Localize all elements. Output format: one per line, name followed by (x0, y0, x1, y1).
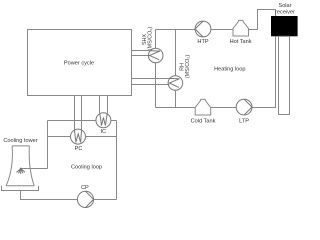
wire CO2 power cycle to RH upper (132, 78, 169, 80)
pump LTP (236, 99, 252, 115)
wire CO2 power cycle to SHX upper (132, 50, 149, 52)
svg-text:IC: IC (101, 129, 107, 135)
wire RH bottom riser (175, 90, 177, 107)
wire Hot Tank to receiver riser (249, 10, 276, 30)
wire SHX bottom riser (155, 63, 157, 108)
wire IC right to loop edge (111, 120, 117, 122)
basin (2, 186, 39, 191)
wire basin outlet (21, 190, 78, 199)
svg-text:receiver: receiver (275, 10, 295, 16)
wire PC line right (85, 136, 116, 138)
svg-text:CP: CP (81, 185, 89, 191)
svg-text:Hot Tank: Hot Tank (230, 39, 252, 45)
svg-text:Power cycle: Power cycle (64, 61, 94, 67)
wire cooling loop left edge (47, 121, 49, 169)
label SHX (MS/CO2) (142, 27, 154, 51)
svg-text:Heating loop: Heating loop (214, 67, 245, 73)
wire CO2 power cycle to RH lower (132, 84, 170, 86)
tank Hot Tank (233, 20, 249, 36)
svg-text:Cooling tower: Cooling tower (3, 138, 37, 144)
wire cold header to Cold Tank (156, 107, 196, 109)
wire CO2 riser to PC left (74, 96, 76, 130)
label Solar receiver (275, 3, 295, 16)
wire SHX top riser to hot header (155, 30, 157, 49)
wire hot header SHX to HTP (156, 29, 196, 31)
power cycle box (28, 30, 132, 96)
heat exchanger PC precooler (71, 129, 86, 144)
label RH (MS/CO2) (180, 55, 191, 79)
svg-text:HTP: HTP (197, 39, 208, 45)
spray nozzle (16, 168, 25, 174)
wire CO2 riser to PC right (81, 96, 83, 130)
svg-text:(MS/CO₂): (MS/CO₂) (185, 55, 191, 79)
wire CO2 riser to IC right (107, 96, 109, 114)
solar receiver (271, 16, 298, 36)
wire cooling loop top IC line (48, 120, 97, 122)
heat exchanger RH (MS/CO2) (168, 76, 183, 91)
svg-text:PC: PC (75, 146, 83, 152)
svg-text:Cold Tank: Cold Tank (191, 119, 216, 125)
svg-text:LTP: LTP (239, 119, 249, 125)
tower column (279, 36, 290, 114)
pump HTP (195, 21, 211, 37)
wire cooling loop right edge (116, 121, 118, 200)
wire LTP to Cold Tank (211, 107, 237, 109)
wire CO2 power cycle to SHX lower (132, 55, 150, 57)
wire tower inlet (21, 168, 48, 170)
wire HTP to Hot Tank (211, 29, 233, 31)
wire CO2 riser to IC left (99, 96, 101, 114)
wire RH top riser (175, 30, 177, 76)
svg-text:Solar: Solar (278, 3, 291, 9)
heat exchanger IC intercooler (96, 113, 111, 128)
tank Cold Tank (195, 99, 211, 115)
heat exchanger SHX (MS/CO2) (148, 48, 163, 63)
svg-text:Cooling loop: Cooling loop (71, 164, 102, 170)
wire PC line left (48, 136, 71, 138)
svg-text:(MS/CO₂): (MS/CO₂) (148, 27, 154, 51)
wire CP discharge (94, 199, 117, 201)
cooling tower shell (6, 146, 34, 186)
pump CP (77, 191, 93, 207)
wire receiver downcomer to LTP (252, 36, 276, 107)
